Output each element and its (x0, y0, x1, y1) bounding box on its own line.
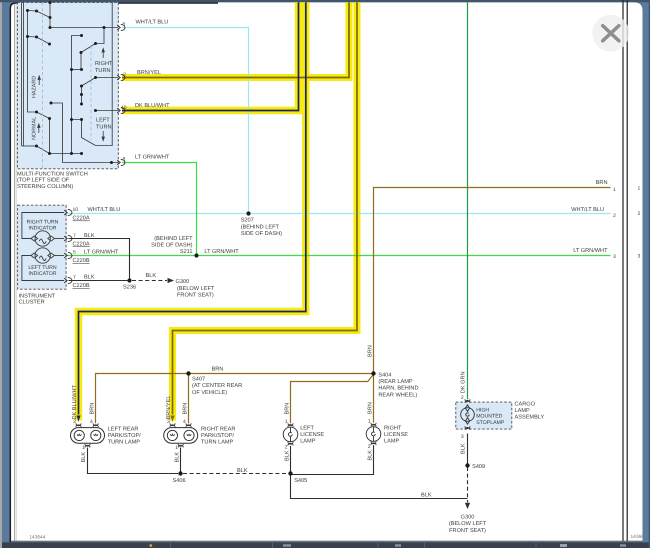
svg-text:(AT CENTER REAR: (AT CENTER REAR (192, 382, 242, 389)
svg-text:(BEHIND LEFT: (BEHIND LEFT (154, 235, 193, 242)
svg-text:FRONT SEAT): FRONT SEAT) (449, 527, 486, 534)
wire BRN horizontal to right edge and down to S404 (374, 188, 611, 374)
wire core DK BLU/WHT (left rear lamp) (79, 2, 306, 416)
svg-text:BLK: BLK (367, 450, 373, 461)
svg-text:14366: 14366 (631, 534, 645, 540)
svg-text:LICENSE: LICENSE (300, 432, 324, 438)
svg-text:C220B: C220B (73, 283, 90, 289)
svg-text:TURN: TURN (96, 125, 112, 131)
wire DK GRN vertical to high mounted stoplamp (467, 2, 469, 399)
svg-text:LICENSE: LICENSE (384, 432, 408, 438)
svg-text:3: 3 (613, 254, 616, 260)
svg-text:BLK: BLK (284, 450, 290, 461)
diagram page bottom border line (11, 540, 643, 542)
svg-text:DK BLU/WHT: DK BLU/WHT (135, 102, 170, 109)
svg-text:2: 2 (461, 395, 464, 401)
svg-text:S207: S207 (241, 218, 254, 224)
svg-text:G300: G300 (461, 515, 475, 521)
svg-text:10: 10 (121, 105, 127, 111)
page curl gray lines (14, 4, 16, 542)
splice S405 (288, 471, 292, 475)
svg-text:LEFT REAR: LEFT REAR (108, 427, 139, 433)
svg-text:BRN: BRN (90, 403, 96, 415)
svg-text:LT GRN/WHT: LT GRN/WHT (204, 248, 239, 255)
svg-text:1: 1 (285, 419, 288, 425)
cluster pin 7 connector C220B (64, 277, 72, 283)
svg-text:MOUNTED: MOUNTED (476, 414, 502, 420)
svg-text:TURN: TURN (95, 68, 111, 74)
svg-text:BLK: BLK (175, 452, 181, 463)
switch pin 10 connector (117, 107, 125, 113)
svg-text:LAMP: LAMP (384, 439, 400, 445)
svg-text:10: 10 (73, 207, 79, 213)
left license lamp (288, 423, 293, 427)
ground arrow G300 (bottom) (465, 503, 470, 509)
wire core BRN/YEL (switch pin 2) (122, 2, 349, 77)
instrument cluster box (18, 205, 67, 289)
svg-text:FRONT SEAT): FRONT SEAT) (177, 292, 214, 299)
wire core DK BLU/WHT (switch pin 10) (122, 2, 299, 110)
svg-text:STOPLAMP: STOPLAMP (476, 420, 505, 426)
svg-text:1: 1 (613, 187, 616, 193)
svg-text:(BEHIND LEFT: (BEHIND LEFT (241, 223, 280, 230)
cluster pin 5 connector C220B (64, 252, 72, 258)
svg-text:S211: S211 (180, 249, 193, 255)
switch internal column lines (21, 2, 23, 146)
right rear park/stop/turn lamp (170, 423, 175, 427)
svg-text:8: 8 (123, 157, 126, 163)
svg-text:2: 2 (123, 72, 126, 78)
svg-text:PARK/STOP/: PARK/STOP/ (108, 432, 141, 439)
svg-text:2: 2 (638, 211, 641, 217)
svg-text:2: 2 (613, 213, 616, 219)
svg-text:LT GRN/WHT: LT GRN/WHT (573, 247, 608, 254)
svg-text:DK BLU/WHT: DK BLU/WHT (71, 384, 78, 419)
svg-text:RIGHT: RIGHT (95, 61, 113, 67)
switch contact dots (26, 9, 29, 12)
svg-text:BRN: BRN (367, 345, 373, 357)
switch blade right-turn upper (81, 44, 96, 53)
svg-text:RIGHT TURN: RIGHT TURN (27, 220, 59, 226)
svg-text:BLK: BLK (81, 452, 87, 463)
svg-text:RIGHT: RIGHT (384, 426, 402, 432)
wire LT GRN/WHT horizontal from cluster pin 5 to right edge (66, 255, 611, 257)
splice S409 (465, 463, 469, 467)
right turn indicator lamp (35, 231, 50, 246)
splice S407 (186, 371, 190, 375)
left turn indicator lamp (35, 248, 50, 263)
switch wire to pin8 (51, 103, 118, 163)
wire BRN/YEL highlight band (to switch pin 2) (122, 2, 349, 77)
switch position arrows (38, 49, 105, 141)
svg-text:WHT/LT BLU: WHT/LT BLU (88, 206, 121, 213)
svg-text:WHT/LT BLU: WHT/LT BLU (571, 206, 604, 213)
wire DK BLU/WHT highlight band (down to left rear lamp) (79, 2, 306, 420)
svg-text:DK GRN: DK GRN (461, 371, 467, 393)
svg-text:INDICATOR: INDICATOR (28, 271, 56, 277)
svg-text:4: 4 (90, 419, 93, 425)
switch blade dk blu/wht contact (96, 110, 119, 112)
cluster internal wiring left turn (22, 256, 64, 281)
high mounted stoplamp box (cargo lamp assembly) (456, 402, 512, 429)
wire BLK S405 down and right to ground run (291, 474, 468, 499)
svg-text:C220A: C220A (73, 216, 90, 222)
wire WHT/LT BLU horizontal from cluster pin 10 to right edge (66, 213, 611, 215)
switch normal blade (37, 146, 82, 154)
switch wire pin5 row (50, 27, 118, 29)
svg-text:4: 4 (183, 419, 186, 425)
svg-text:STEERING COLUMN): STEERING COLUMN) (17, 183, 73, 190)
svg-text:HARN, BEHIND: HARN, BEHIND (378, 386, 418, 392)
svg-text:BLK: BLK (146, 273, 157, 279)
switch pin 8 connector (117, 159, 125, 165)
svg-text:S404: S404 (378, 372, 391, 378)
svg-text:INSTRUMENT: INSTRUMENT (19, 294, 56, 300)
switch blade left-turn (72, 120, 96, 146)
svg-text:2: 2 (285, 445, 288, 451)
cluster pin 7 connector C220A (64, 235, 72, 241)
switch pin 5 connector (117, 24, 125, 30)
svg-text:C220A: C220A (73, 241, 90, 247)
svg-text:WHT/LT BLU: WHT/LT BLU (136, 19, 169, 26)
svg-text:BRN/YEL: BRN/YEL (165, 396, 172, 420)
switch vertical to pin5 row (49, 2, 51, 28)
ground arrow G300 (below left front seat) (168, 278, 175, 283)
svg-text:1: 1 (82, 445, 85, 451)
svg-text:LEFT: LEFT (96, 118, 110, 124)
svg-text:CLUSTER: CLUSTER (19, 300, 45, 306)
wire core BRN/YEL (right rear lamp) (173, 2, 358, 416)
switch hazard blade (37, 112, 50, 154)
wire BLK left license lamp to S405 (290, 446, 292, 474)
switch turn detent dashed line (90, 46, 92, 140)
splice S207 (246, 211, 250, 215)
svg-text:BRN: BRN (183, 403, 189, 415)
wire BLK dashed S406 to S405 (183, 473, 288, 475)
svg-text:CARGO: CARGO (515, 402, 536, 408)
switch contact pair 2 (28, 37, 50, 45)
svg-text:(BELOW LEFT: (BELOW LEFT (449, 520, 487, 527)
svg-text:REAR WHEEL): REAR WHEEL) (378, 391, 417, 398)
svg-text:LAMP: LAMP (300, 439, 316, 445)
svg-text:S409: S409 (472, 464, 485, 470)
switch row at 69.5 (72, 69, 82, 71)
svg-text:NORMAL: NORMAL (32, 117, 38, 140)
wire LT GRN/WHT from switch pin 8 to S211 (122, 163, 197, 256)
svg-text:5: 5 (123, 22, 126, 28)
right license lamp (371, 423, 376, 427)
multi-function switch box (17, 2, 118, 168)
wire BRN/YEL highlight band (down to right rear lamp) (173, 2, 358, 420)
svg-text:3: 3 (73, 419, 76, 425)
svg-text:LEFT TURN: LEFT TURN (28, 265, 57, 271)
svg-text:BRN: BRN (284, 403, 290, 415)
splice S236 (127, 278, 131, 282)
wire BRN drop to right rear lamp pin 4 (188, 374, 190, 424)
switch link to right column (96, 2, 113, 145)
wire BRN from S404 to left license lamp (291, 374, 374, 423)
svg-text:BRN/YEL: BRN/YEL (137, 69, 161, 76)
svg-text:C220B: C220B (73, 258, 90, 264)
svg-text:(REAR LAMP: (REAR LAMP (378, 378, 412, 385)
bottom toolbar (2, 542, 649, 548)
wire end arrow DK BLU/WHT at left rear lamp (75, 415, 83, 423)
svg-text:3: 3 (167, 419, 170, 425)
wire BRN from S404 down to right license lamp (373, 374, 375, 423)
svg-text:3: 3 (461, 434, 464, 440)
wire end arrow BRN/YEL at right rear lamp (169, 415, 177, 423)
svg-text:LAMP: LAMP (515, 408, 531, 414)
svg-text:ASSEMBLY: ASSEMBLY (515, 415, 545, 421)
wire BLK cluster pin 7 (C220A) to S236 (69, 239, 130, 281)
svg-text:MULTI-FUNCTION SWITCH: MULTI-FUNCTION SWITCH (17, 172, 88, 178)
svg-text:1: 1 (638, 186, 641, 192)
svg-text:BRN: BRN (596, 180, 608, 186)
wire BLK right rear lamp to S406 (180, 448, 182, 474)
switch pin 2 connector (117, 74, 125, 80)
svg-text:(BELOW LEFT: (BELOW LEFT (177, 285, 215, 292)
svg-text:S406: S406 (173, 478, 186, 484)
svg-text:G300: G300 (176, 279, 190, 285)
svg-text:BLK: BLK (461, 443, 467, 454)
wire BLK cluster pin 7 (C220B) to S236 (69, 280, 130, 282)
svg-text:TURN LAMP: TURN LAMP (201, 440, 234, 446)
svg-text:S407: S407 (192, 377, 205, 383)
switch blade brn/yel contact (82, 78, 119, 105)
svg-text:SIDE OF DASH): SIDE OF DASH) (241, 230, 282, 237)
svg-text:5: 5 (73, 250, 76, 256)
wire BLK left rear lamp to S406 (88, 448, 179, 474)
svg-text:INDICATOR: INDICATOR (28, 226, 56, 232)
svg-text:S236: S236 (123, 285, 136, 291)
high mounted stoplamp (465, 399, 470, 403)
svg-text:1: 1 (175, 445, 178, 451)
switch link down from blade (80, 53, 82, 70)
wire BLK dashed S236 to G300 (132, 280, 167, 282)
svg-text:7: 7 (73, 233, 76, 239)
wire DK BLU/WHT highlight band (to switch pin 10) (122, 2, 299, 110)
svg-text:HAZARD: HAZARD (32, 76, 38, 98)
svg-text:3: 3 (638, 254, 641, 260)
svg-text:LT GRN/WHT: LT GRN/WHT (84, 249, 119, 256)
svg-text:LEFT: LEFT (300, 426, 314, 432)
cluster pin 10 connector (64, 209, 72, 215)
wire BLK stoplamp to S409 (467, 434, 469, 466)
svg-text:BLK: BLK (84, 275, 95, 281)
splice S211 (194, 253, 198, 257)
switch vertical mid column (72, 36, 82, 154)
left rear park/stop/turn lamp (76, 423, 81, 427)
svg-text:BLK: BLK (237, 468, 248, 474)
switch contact blade top pair (28, 11, 51, 18)
svg-text:7: 7 (73, 275, 76, 281)
svg-text:BRN: BRN (367, 402, 373, 414)
page left black edge (10, 3, 218, 542)
svg-text:BLK: BLK (84, 233, 95, 239)
svg-text:RIGHT REAR: RIGHT REAR (201, 427, 235, 433)
svg-text:BRN: BRN (212, 366, 224, 372)
wire BLK dashed S409 to G300 (467, 467, 469, 502)
svg-text:LT GRN/WHT: LT GRN/WHT (135, 154, 170, 161)
wire WHT/LT BLU from switch pin 5 to S207 (122, 28, 249, 214)
svg-text:TURN LAMP: TURN LAMP (108, 440, 141, 446)
svg-text:1: 1 (368, 419, 371, 425)
wire BLK right license lamp over to S405 (291, 445, 374, 474)
splice S404 (371, 371, 375, 375)
svg-text:143644: 143644 (29, 535, 45, 541)
svg-text:PARK/STOP/: PARK/STOP/ (201, 432, 234, 439)
switch hazard divider dashed line (42, 2, 44, 168)
cluster internal wiring right turn (22, 213, 64, 239)
svg-text:2: 2 (368, 444, 371, 450)
svg-text:OF VEHICLE): OF VEHICLE) (192, 389, 227, 396)
svg-text:(TOP LEFT SIDE OF: (TOP LEFT SIDE OF (17, 177, 70, 184)
diagram page right border double line (622, 0, 624, 541)
splice S406 (178, 471, 182, 475)
wire BRN rear harness horizontal through S407 (96, 374, 374, 424)
svg-text:HIGH: HIGH (476, 408, 489, 414)
close button (592, 15, 629, 52)
switch internal vertical hazard feed (28, 11, 37, 113)
svg-text:S405: S405 (294, 478, 307, 484)
svg-text:SIDE OF DASH): SIDE OF DASH) (151, 242, 192, 249)
svg-text:BLK: BLK (421, 493, 432, 499)
